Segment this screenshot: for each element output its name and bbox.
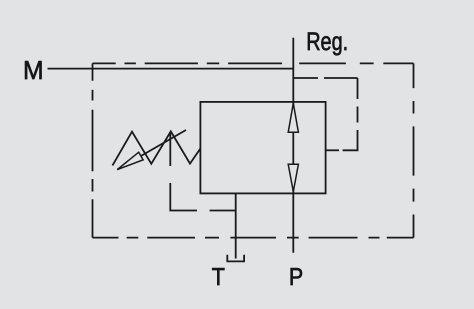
svg-text:P: P [289, 264, 303, 291]
svg-text:T: T [212, 264, 225, 291]
svg-text:M: M [23, 55, 44, 85]
svg-text:Reg.: Reg. [306, 28, 348, 56]
